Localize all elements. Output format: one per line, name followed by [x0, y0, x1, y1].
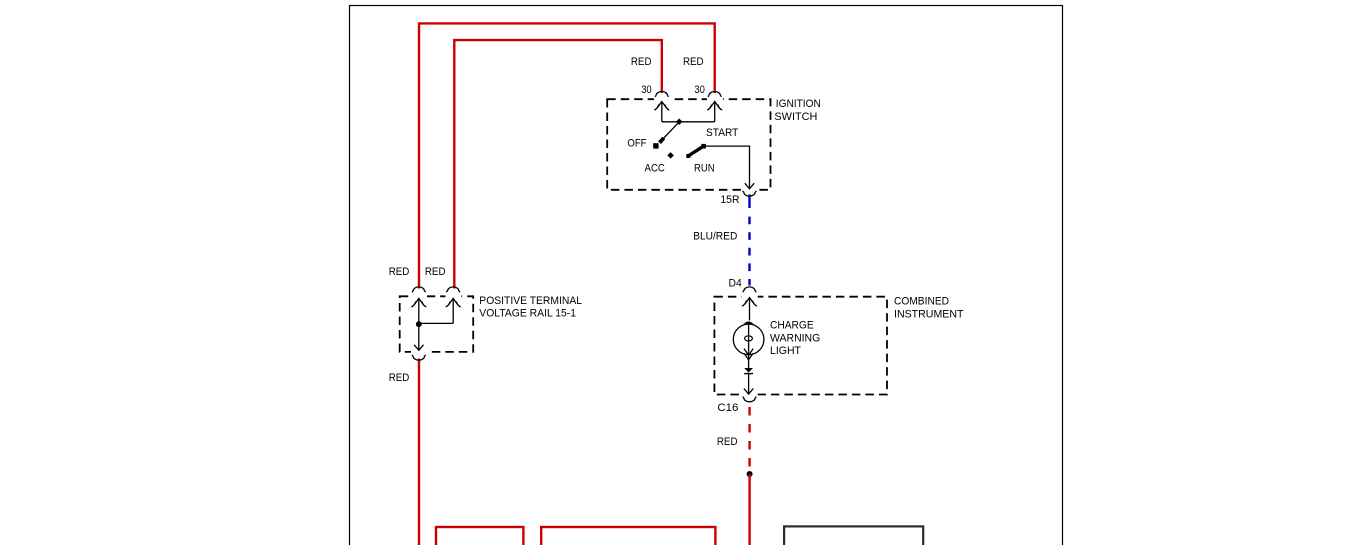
svg-text:START: START: [706, 127, 738, 139]
pin arrow 30 right: [707, 102, 722, 122]
charge warning light lamp: [744, 322, 754, 324]
wire RED from terminal 30 (right) to positive terminal rail left pin: [419, 23, 715, 288]
svg-text:POSITIVE TERMINAL: POSITIVE TERMINAL: [479, 295, 582, 307]
pin arrow 30 left: [654, 102, 669, 122]
svg-text:C16: C16: [717, 402, 738, 414]
wire RED from terminal 30 (left) to positive terminal rail right pin: [454, 40, 662, 288]
positive rail splice node: [416, 321, 422, 327]
svg-text:RED: RED: [425, 266, 446, 278]
pin arrow positive right: [446, 298, 461, 323]
svg-text:15R: 15R: [720, 194, 739, 206]
svg-text:ACC: ACC: [645, 163, 665, 175]
border frame: [350, 6, 1063, 545]
terminal cup C16: [743, 397, 757, 402]
positive rail down wire: [418, 324, 420, 349]
svg-text:COMBINED: COMBINED: [894, 295, 949, 307]
ignition wiper lever to OFF: [662, 122, 680, 141]
terminal dome 30 left: [655, 91, 669, 96]
wire inside ignition to 15R: [704, 146, 750, 188]
terminal cup below positive rail: [412, 355, 426, 360]
pin arrow D4: [742, 298, 757, 321]
RUN-START contact lever: [686, 154, 690, 158]
svg-text:D4: D4: [729, 278, 742, 290]
svg-text:30: 30: [641, 84, 652, 96]
wire RED below positive terminal rail to bottom: [418, 359, 420, 545]
wire diode to C16: [748, 374, 750, 394]
wire RED dashed C16 to splice: [748, 407, 750, 416]
ACC contact: [667, 152, 674, 159]
svg-text:SWITCH: SWITCH: [774, 111, 817, 123]
svg-text:OFF: OFF: [627, 138, 646, 150]
ignition internal bar: [662, 121, 715, 123]
svg-text:RUN: RUN: [694, 163, 715, 175]
bottom red box 2: [541, 527, 715, 545]
svg-text:RED: RED: [389, 372, 410, 384]
combined instrument dashed box: [714, 297, 887, 395]
terminal dome positive rail right: [446, 287, 460, 292]
terminal dome positive rail left: [412, 287, 426, 292]
svg-text:RED: RED: [717, 436, 738, 448]
pin arrow positive left: [411, 298, 426, 324]
wire RED from splice to bottom: [748, 474, 750, 545]
arrow down at C16: [744, 389, 753, 395]
positive rail internal jumper: [419, 322, 453, 324]
terminal dome 30 right: [708, 91, 722, 96]
positive terminal rail dashed box: [400, 296, 474, 352]
svg-text:IGNITION: IGNITION: [776, 98, 821, 110]
svg-text:RED: RED: [683, 56, 704, 68]
diode: [744, 368, 753, 373]
svg-text:30: 30: [694, 84, 705, 96]
svg-text:WARNING: WARNING: [770, 333, 820, 345]
ignition wiper pivot node: [676, 119, 683, 126]
svg-text:INSTRUMENT: INSTRUMENT: [894, 309, 964, 321]
svg-text:BLU/RED: BLU/RED: [693, 231, 737, 243]
svg-text:CHARGE: CHARGE: [770, 320, 814, 332]
terminal dome D4: [743, 287, 757, 292]
wire BLU/RED dashed 15R to D4: [748, 195, 750, 209]
arrow down at 15R: [745, 183, 754, 189]
ignition switch dashed box: [607, 99, 770, 190]
svg-text:RED: RED: [389, 266, 410, 278]
terminal cup 15R: [743, 191, 757, 196]
wire lamp to diode: [748, 355, 750, 368]
splice node: [747, 471, 753, 477]
svg-text:LIGHT: LIGHT: [770, 345, 801, 357]
svg-text:RED: RED: [631, 56, 652, 68]
bottom dark box: [784, 526, 923, 545]
arrow down at positive rail exit: [414, 345, 423, 351]
svg-text:VOLTAGE RAIL 15-1: VOLTAGE RAIL 15-1: [479, 308, 576, 320]
bottom red box 1: [436, 527, 523, 545]
